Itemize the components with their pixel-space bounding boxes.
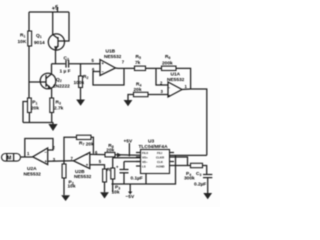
svg-text:20k: 20k: [31, 106, 39, 112]
svg-text:0.2µF: 0.2µF: [194, 181, 206, 187]
svg-text:9014: 9014: [34, 40, 45, 46]
svg-text:NE5532: NE5532: [104, 54, 122, 60]
svg-text:200k: 200k: [162, 61, 173, 67]
svg-text:7: 7: [71, 156, 74, 161]
svg-text:Q2: Q2: [56, 77, 62, 83]
svg-text:CLK: CLK: [157, 160, 164, 164]
svg-text:R2: R2: [83, 74, 88, 80]
svg-text:CLKR: CLKR: [156, 156, 165, 160]
svg-text:3: 3: [161, 89, 164, 94]
svg-text:M: M: [7, 156, 11, 162]
svg-text:−5V: −5V: [126, 194, 135, 200]
svg-text:NE5532: NE5532: [24, 171, 42, 177]
svg-text:R1: R1: [20, 33, 25, 39]
svg-text:2.7k: 2.7k: [54, 106, 64, 112]
svg-text:R3: R3: [56, 100, 61, 106]
svg-text:+: +: [45, 159, 48, 164]
svg-text:NE5532: NE5532: [74, 174, 92, 180]
svg-text:U1B: U1B: [106, 49, 116, 55]
svg-text:7k: 7k: [135, 60, 141, 66]
svg-text:U1A: U1A: [171, 72, 181, 78]
svg-text:AGND: AGND: [156, 165, 165, 169]
svg-text:300k: 300k: [184, 176, 195, 182]
svg-text:Q1: Q1: [36, 33, 42, 39]
svg-text:R5: R5: [136, 54, 141, 60]
svg-text:+: +: [86, 163, 89, 168]
svg-text:R7 20k: R7 20k: [79, 141, 94, 148]
svg-text:1: 1: [27, 151, 30, 156]
svg-text:10k: 10k: [112, 189, 120, 195]
svg-text:100k: 100k: [74, 80, 85, 86]
svg-text:20k: 20k: [134, 87, 142, 93]
svg-text:10k: 10k: [68, 183, 76, 189]
svg-text:C2: C2: [64, 56, 69, 62]
svg-text:0.1µF: 0.1µF: [131, 175, 143, 181]
svg-text:U2A: U2A: [27, 166, 37, 172]
svg-text:2N2222: 2N2222: [53, 84, 70, 90]
svg-text:5: 5: [92, 58, 95, 63]
svg-text:R4: R4: [136, 82, 141, 88]
svg-text:−: −: [168, 85, 171, 90]
svg-text:P1: P1: [32, 100, 37, 106]
svg-text:5: 5: [99, 159, 102, 164]
svg-text:+5V: +5V: [124, 139, 133, 145]
svg-text:7: 7: [122, 60, 125, 65]
svg-text:U3: U3: [148, 139, 154, 145]
svg-text:20k: 20k: [106, 147, 114, 153]
svg-text:C3: C3: [196, 171, 201, 177]
svg-text:10K: 10K: [18, 39, 27, 45]
svg-text:VD−: VD−: [142, 160, 148, 164]
svg-text:+: +: [116, 165, 119, 170]
svg-text:FIL0: FIL0: [142, 151, 148, 155]
svg-text:LS: LS: [142, 165, 146, 169]
svg-text:VO+: VO+: [142, 156, 148, 160]
svg-text:1 µ F: 1 µ F: [60, 69, 71, 75]
svg-text:1: 1: [185, 84, 188, 89]
svg-text:−: −: [45, 150, 48, 155]
svg-text:R6: R6: [165, 54, 170, 60]
svg-text:FILI: FILI: [157, 151, 162, 155]
svg-text:NE5532: NE5532: [167, 77, 185, 83]
svg-text:2: 2: [53, 145, 56, 150]
